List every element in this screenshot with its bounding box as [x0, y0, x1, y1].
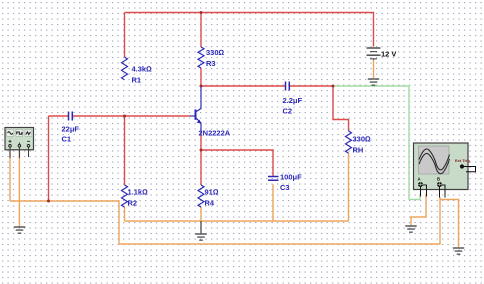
- svg-text:2N2222A: 2N2222A: [199, 129, 231, 138]
- svg-text:91Ω: 91Ω: [205, 188, 219, 197]
- svg-text:A: A: [418, 177, 421, 182]
- svg-text:C1: C1: [62, 135, 72, 144]
- svg-text:R1: R1: [132, 76, 142, 85]
- svg-text:22μF: 22μF: [62, 125, 80, 134]
- svg-text:R2: R2: [128, 199, 138, 208]
- svg-text:330Ω: 330Ω: [206, 48, 225, 57]
- svg-text:100μF: 100μF: [280, 173, 302, 182]
- svg-text:Ext Trig: Ext Trig: [455, 158, 470, 163]
- svg-text:2.2μF: 2.2μF: [283, 96, 303, 105]
- svg-text:C3: C3: [280, 183, 290, 192]
- svg-text:330Ω: 330Ω: [353, 135, 372, 144]
- svg-text:RH: RH: [353, 146, 364, 155]
- svg-text:C2: C2: [283, 107, 293, 116]
- svg-text:12 V: 12 V: [381, 50, 396, 59]
- svg-text:4.3kΩ: 4.3kΩ: [132, 65, 153, 74]
- svg-text:R4: R4: [205, 199, 215, 208]
- svg-text:1.1kΩ: 1.1kΩ: [128, 188, 149, 197]
- svg-text:R3: R3: [206, 59, 216, 68]
- svg-text:B: B: [437, 177, 440, 182]
